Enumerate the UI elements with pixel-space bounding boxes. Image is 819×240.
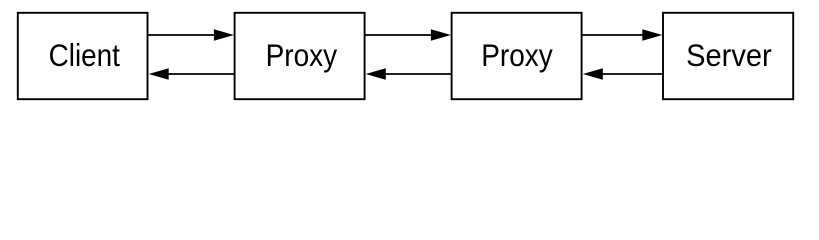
svg-text:Client: Client — [49, 37, 121, 73]
wire Proxy1 to Proxy2 (request) — [365, 34, 447, 36]
wire Client to Proxy1 (request) — [148, 34, 231, 36]
arrowhead into Client — [149, 68, 169, 80]
box Proxy 1 — [235, 13, 365, 99]
wire Proxy2 to Proxy1 (response) — [382, 73, 452, 75]
arrowhead into Proxy2 — [431, 29, 451, 41]
wire Proxy1 to Client (response) — [165, 73, 235, 75]
wire Server to Proxy2 (response) — [600, 73, 663, 75]
svg-text:Proxy: Proxy — [481, 37, 553, 73]
box Server — [663, 13, 793, 99]
box Client — [18, 13, 148, 99]
arrowhead into Proxy2 response — [583, 68, 603, 80]
arrowhead into Server — [642, 29, 662, 41]
svg-text:Proxy: Proxy — [266, 37, 338, 73]
arrowhead into Proxy1 — [214, 29, 234, 41]
svg-text:Server: Server — [686, 37, 772, 73]
arrowhead into Proxy1 response — [366, 68, 386, 80]
box Proxy 2 — [452, 13, 582, 99]
wire Proxy2 to Server (request) — [582, 34, 659, 36]
